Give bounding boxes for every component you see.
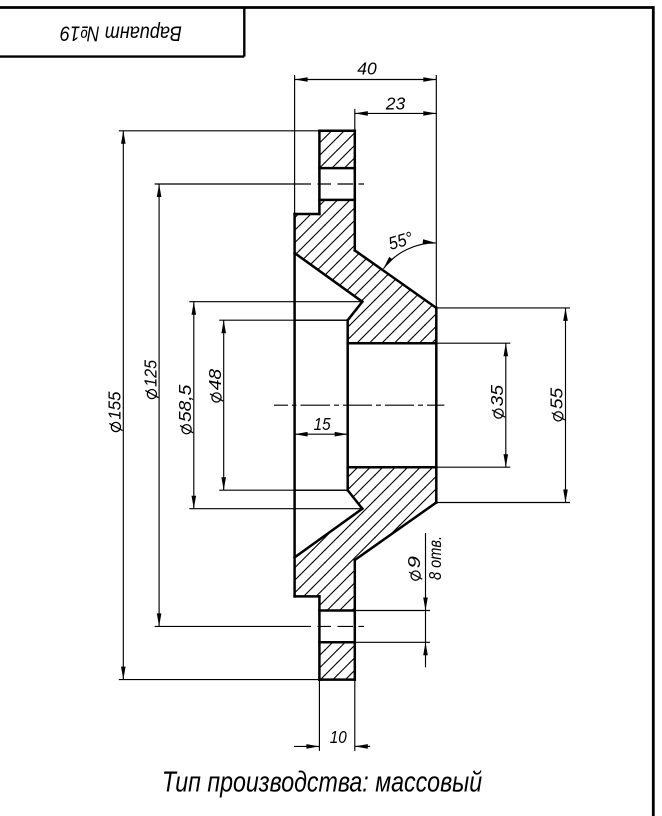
boss bottom edge xyxy=(295,595,320,598)
dim line d155 xyxy=(122,131,124,680)
arrow d125 bottom xyxy=(157,613,162,626)
d55 label xyxy=(547,387,567,420)
page frame top xyxy=(0,6,653,9)
inner cone top xyxy=(295,253,363,302)
arrow 15 left xyxy=(295,432,308,437)
inner cone bottom xyxy=(295,509,363,558)
arrow d55 bottom xyxy=(563,490,568,503)
left face xyxy=(293,214,296,596)
ext d55 bottom xyxy=(436,502,570,504)
ext 23 left xyxy=(354,109,356,131)
bolt hole centerline top xyxy=(155,183,364,185)
svg-text:Тип производства: массовый: Тип производства: массовый xyxy=(162,765,483,798)
ext 10 left xyxy=(318,680,320,751)
dim line d48 xyxy=(223,320,225,490)
arrow 10 right xyxy=(355,744,368,749)
arrow d125 top xyxy=(157,184,162,197)
svg-text:35: 35 xyxy=(487,385,507,407)
dim line 40 xyxy=(295,79,437,81)
bolt hole top edge upper xyxy=(319,167,354,170)
dim line 23 xyxy=(355,112,437,114)
svg-text:58,5: 58,5 xyxy=(175,384,195,422)
svg-text:40: 40 xyxy=(357,59,377,79)
arrow 55deg left xyxy=(382,257,393,270)
dim line d58.5 xyxy=(193,302,195,509)
ext vertex top (d58.5) xyxy=(189,301,362,303)
ext bore d35 right top xyxy=(436,342,510,344)
55deg label xyxy=(386,228,415,254)
arrow 40 left xyxy=(295,77,308,82)
hatch region main top xyxy=(295,200,437,343)
flange left face bottom xyxy=(318,596,321,679)
dim line d55 xyxy=(565,308,567,503)
outer cone top xyxy=(355,250,437,308)
svg-text:125: 125 xyxy=(140,360,160,387)
arrow d48 top xyxy=(221,320,226,333)
arrow 23 left xyxy=(355,111,368,116)
ext 40 left xyxy=(294,75,296,214)
d155 label xyxy=(104,391,124,431)
svg-text:55: 55 xyxy=(547,387,567,409)
bolt hole bottom edge upper xyxy=(319,199,354,202)
svg-text:8 отв.: 8 отв. xyxy=(425,536,445,580)
arrow d155 top xyxy=(121,131,126,144)
arrow d35 top xyxy=(504,343,509,356)
dim line 15 xyxy=(295,433,348,435)
bolt hole bottom edge lower xyxy=(319,641,354,644)
svg-text:9: 9 xyxy=(404,556,424,569)
svg-text:15: 15 xyxy=(314,414,331,434)
ext 40 right xyxy=(435,75,437,308)
arrow d58.5 top xyxy=(192,302,197,315)
boss top edge xyxy=(295,213,320,216)
flange right face bottom xyxy=(354,560,357,680)
svg-text:48: 48 xyxy=(205,369,225,391)
svg-text:23: 23 xyxy=(385,93,406,113)
variant text (rotated 180) xyxy=(60,21,182,45)
bore d35 top xyxy=(348,342,437,345)
counterbore edge top (medium) xyxy=(295,319,348,321)
flange bottom edge xyxy=(319,678,354,681)
ext counterbore top (d48) xyxy=(219,319,348,321)
d35 label xyxy=(487,385,507,418)
ext flange bottom xyxy=(119,679,320,681)
ext counterbore bottom xyxy=(219,489,348,491)
ext d55 top xyxy=(436,307,570,309)
svg-text:10: 10 xyxy=(330,727,347,747)
ext bore d35 right bottom xyxy=(436,466,510,468)
outer cone bottom xyxy=(355,503,437,561)
flange top edge xyxy=(319,130,354,133)
arrow d35 bottom xyxy=(504,454,509,467)
dim line d125 xyxy=(158,184,160,626)
8 otv label xyxy=(425,536,445,580)
d48 label xyxy=(205,369,225,402)
ext 10 right xyxy=(354,680,356,751)
inner cone bottom notch xyxy=(348,490,363,509)
ext d9 top xyxy=(355,610,430,612)
arrow 40 right xyxy=(423,77,436,82)
step face line xyxy=(346,320,349,490)
ext flange top xyxy=(119,130,320,132)
arrow d9 top xyxy=(423,598,428,611)
arrow d9 bottom xyxy=(423,642,428,655)
main axis centerline xyxy=(274,404,444,406)
arrow 55deg right xyxy=(423,239,436,245)
svg-text:155: 155 xyxy=(104,391,124,420)
arrow 15 right xyxy=(335,432,348,437)
bolt hole centerline bottom xyxy=(155,625,364,627)
ext vertex bottom xyxy=(189,508,362,510)
bore d35 bottom xyxy=(348,466,437,469)
arrow 10 left xyxy=(306,744,319,749)
arrow d48 bottom xyxy=(221,477,226,490)
svg-text:Вариант №19: Вариант №19 xyxy=(60,21,182,45)
dim line 10 right tail xyxy=(355,745,370,747)
arrow d155 bottom xyxy=(121,667,126,680)
arrow d55 top xyxy=(563,308,568,321)
title text xyxy=(162,765,483,798)
flange right face xyxy=(354,131,357,251)
bolt hole top edge lower xyxy=(319,609,354,612)
counterbore edge bottom (medium) xyxy=(295,489,348,491)
flange left face xyxy=(318,131,321,214)
dim line d35 xyxy=(505,343,507,467)
right face xyxy=(435,308,438,503)
55 degree arc xyxy=(383,243,435,269)
arrow d58.5 bottom xyxy=(192,496,197,509)
d9 label xyxy=(404,556,424,580)
ext d9 bottom xyxy=(355,641,430,643)
dim line d9 xyxy=(425,533,427,667)
hatch region flange bottom xyxy=(319,642,354,679)
inner cone top notch xyxy=(348,302,363,321)
d58.5 label xyxy=(175,384,195,433)
hatch region flange top xyxy=(319,131,354,168)
dim line 10 left tail xyxy=(294,745,319,747)
page frame right xyxy=(652,6,655,816)
variant box xyxy=(0,55,244,57)
d125 label xyxy=(140,360,160,399)
arrow 23 right xyxy=(423,111,436,116)
hatch region main bottom xyxy=(295,467,437,610)
